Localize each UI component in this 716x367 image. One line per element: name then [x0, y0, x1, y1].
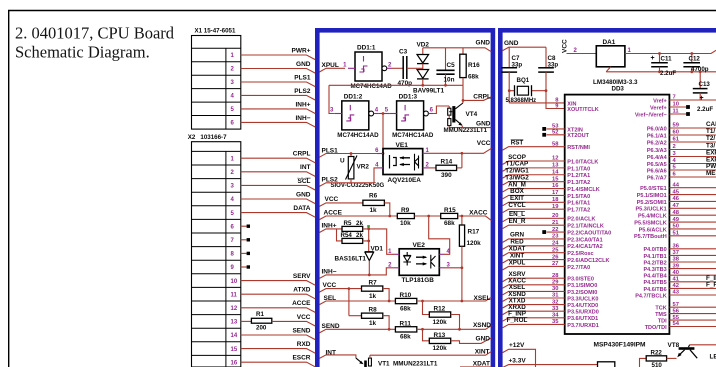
capacitor C8 33p: [538, 47, 565, 108]
svg-text:P6.6/A6: P6.6/A6: [647, 168, 667, 174]
sheet 2 border: [498, 28, 716, 367]
wire feedback rail y85: [329, 84, 463, 87]
svg-text:390: 390: [441, 172, 452, 179]
svg-text:Vref−/Veref−: Vref−/Veref−: [635, 112, 667, 118]
svg-text:P1.3/TA2: P1.3/TA2: [567, 180, 590, 186]
svg-text:GND: GND: [476, 120, 491, 127]
pin 16 P1.4/SMCLK node AN_M: [503, 181, 600, 193]
svg-text:16: 16: [552, 183, 559, 189]
svg-text:30: 30: [552, 286, 558, 292]
wire XINT: [370, 349, 492, 356]
pin 61 P6.2/A2 node T2/: [647, 135, 716, 146]
svg-text:40: 40: [673, 270, 679, 276]
svg-text:24: 24: [552, 241, 559, 247]
wire XSND: [417, 322, 492, 331]
svg-text:VT8: VT8: [668, 342, 680, 349]
svg-text:T3/: T3/: [706, 143, 715, 150]
svg-text:11: 11: [231, 292, 238, 298]
pin 45 P5.1/SIMO1: [637, 189, 716, 199]
wire ACCE: [319, 210, 397, 220]
svg-text:P4.2/TB2: P4.2/TB2: [643, 260, 666, 266]
svg-text:P2.3/CA0/TA1: P2.3/CA0/TA1: [567, 237, 602, 243]
svg-text:42: 42: [673, 283, 679, 289]
pin 20 P2.0/ACLK node EN_L: [503, 211, 596, 223]
svg-text:58: 58: [552, 141, 559, 147]
wire VD2 mid node: [417, 67, 423, 69]
dual diode VD2 BAV99LT1: [413, 42, 444, 95]
svg-text:RST/NMI: RST/NMI: [567, 145, 590, 151]
svg-text:F_RO: F_RO: [706, 281, 716, 288]
svg-text:47: 47: [673, 203, 679, 209]
pin 12 P1.0/TACLK node SCOP: [503, 154, 599, 166]
svg-text:21: 21: [552, 220, 559, 226]
svg-text:+: +: [700, 95, 704, 102]
svg-text:P6.1/A1: P6.1/A1: [647, 133, 667, 139]
optocoupler VE2 TLP181GB: [388, 242, 450, 284]
svg-text:P5.7/TBoutH: P5.7/TBoutH: [634, 234, 667, 240]
wire INT: [319, 349, 356, 358]
resistor R16 68k: [460, 48, 480, 86]
svg-text:XACC: XACC: [469, 210, 488, 217]
svg-text:X1 15-47-6051: X1 15-47-6051: [195, 28, 236, 35]
pin 26 P2.6/ADC12CLK node XINT: [503, 252, 610, 264]
svg-text:GND: GND: [476, 39, 491, 46]
svg-text:35: 35: [552, 319, 559, 325]
svg-text:MC74HC14AD: MC74HC14AD: [337, 132, 379, 139]
svg-text:29: 29: [552, 280, 559, 286]
wire X1 pin 2 GND: [241, 61, 315, 73]
svg-text:PLS2: PLS2: [294, 88, 311, 95]
svg-text:13: 13: [231, 320, 238, 326]
svg-text:18: 18: [552, 197, 559, 203]
pin 35 P3.7/URXD1 node F_ROL: [503, 317, 599, 329]
svg-text:P6.3/A3: P6.3/A3: [647, 148, 667, 154]
svg-text:51: 51: [673, 230, 680, 236]
wire X2 pin 2 INT: [241, 164, 315, 176]
optocoupler VE1 AQV210EA: [375, 142, 429, 184]
resistor R23 on +3.3V: [598, 362, 615, 367]
svg-text:TLP181GB: TLP181GB: [402, 277, 435, 284]
pin 29 P3.1/SIMO0 node XACC: [503, 278, 598, 290]
svg-text:X2 103166-7: X2 103166-7: [188, 134, 227, 141]
svg-text:R54: R54: [341, 232, 353, 239]
pin 44 P5.0/STE1: [640, 182, 716, 192]
svg-text:P4.4/TB4: P4.4/TB4: [643, 274, 667, 280]
pin 49 P5.5/SMCLK: [634, 217, 716, 227]
crystal BQ1 5.8368MHz: [506, 77, 548, 104]
svg-text:XPUL: XPUL: [322, 62, 339, 69]
svg-text:SCL: SCL: [298, 178, 311, 185]
svg-text:SERV: SERV: [293, 273, 311, 280]
svg-text:44: 44: [673, 182, 680, 188]
wire +3.3V: [503, 357, 598, 367]
pin 58 RST/NMI node RST: [503, 140, 591, 152]
wire X2 pin 15 RXD: [241, 341, 315, 353]
node XPUL: [319, 62, 345, 72]
pin 13 P1.1/TA0 node T1/CAP: [503, 161, 591, 173]
wire SEL: [319, 295, 395, 305]
svg-text:P2.2/CAOUT/TA0: P2.2/CAOUT/TA0: [567, 230, 611, 236]
svg-text:VR2: VR2: [357, 164, 370, 171]
junction node DD net: [382, 112, 385, 153]
svg-text:14: 14: [552, 169, 559, 175]
svg-text:Schematic Diagram.: Schematic Diagram.: [15, 43, 150, 62]
pin 59 P6.0/A0 node CAP: [647, 121, 716, 132]
svg-text:11: 11: [673, 109, 680, 115]
svg-text:39: 39: [673, 263, 680, 269]
svg-text:68k: 68k: [400, 334, 411, 341]
svg-text:R17: R17: [468, 229, 480, 236]
wire XSEL: [417, 295, 492, 302]
wire DA1 output rail: [625, 50, 716, 54]
svg-text:10k: 10k: [400, 220, 411, 227]
svg-text:PWR+: PWR+: [292, 47, 311, 54]
connector X2 103166-7: [188, 134, 241, 367]
svg-text:P3.7/URXD1: P3.7/URXD1: [567, 323, 599, 329]
resistor R6 1k: [363, 193, 390, 216]
svg-text:VCC: VCC: [477, 140, 491, 147]
svg-text:36: 36: [673, 244, 680, 250]
svg-text:XINT: XINT: [475, 349, 490, 356]
wire X2 pin 10 SERV: [241, 273, 315, 285]
svg-text:P3.2/SOMI0: P3.2/SOMI0: [567, 290, 597, 296]
resistor R13 120k: [423, 329, 492, 352]
svg-text:P4.7/TBCLK: P4.7/TBCLK: [635, 293, 667, 299]
node XDAT: [460, 361, 491, 367]
svg-text:VCC: VCC: [323, 282, 337, 289]
svg-text:P3.3/UCLK0: P3.3/UCLK0: [567, 296, 598, 302]
svg-text:120k: 120k: [433, 345, 448, 352]
svg-text:T2/: T2/: [706, 135, 715, 142]
svg-text:DD1:2: DD1:2: [344, 93, 363, 100]
svg-text:16: 16: [231, 360, 238, 366]
svg-text:41: 41: [673, 277, 680, 283]
wire R9R15 junction to VE2 pin4: [429, 216, 450, 254]
svg-text:R14: R14: [441, 158, 453, 165]
svg-text:46: 46: [673, 196, 680, 202]
svg-text:P3.5/URXD0: P3.5/URXD0: [567, 310, 599, 316]
pin 57 TCK: [655, 302, 716, 312]
pin 51 P5.7/TBoutH: [634, 230, 716, 240]
svg-text:C5: C5: [447, 62, 456, 69]
svg-text:38: 38: [673, 257, 680, 263]
pin 33 P3.5/URXD0 node XRXD: [503, 304, 599, 316]
capacitor C12 4700p: [683, 54, 708, 73]
wire SEND: [319, 323, 395, 333]
svg-text:22: 22: [552, 227, 558, 233]
svg-text:45: 45: [673, 189, 680, 195]
pin 38 P4.2/TB2: [643, 257, 716, 267]
pin 23 P2.3/CA0/TA1 node GRN: [503, 232, 603, 244]
wire X2 pin 12 ACCE: [241, 300, 315, 312]
svg-text:R5: R5: [344, 220, 352, 227]
svg-text:68k: 68k: [400, 305, 411, 312]
svg-text:P1.1/TA0: P1.1/TA0: [567, 166, 590, 172]
svg-text:C11: C11: [661, 56, 673, 63]
svg-text:P5.6/ACLK: P5.6/ACLK: [639, 227, 667, 233]
svg-text:ATXD: ATXD: [293, 287, 311, 294]
svg-text:P5.0/STE1: P5.0/STE1: [640, 186, 667, 192]
pin 6 P6.7/A7 node MES: [647, 170, 716, 181]
resistor R5 2k: [342, 220, 363, 232]
svg-text:23: 23: [552, 234, 559, 240]
pin 32 P3.4/UTXD0 node XTXD: [503, 297, 599, 309]
svg-text:27: 27: [552, 261, 558, 267]
pin 3 P6.4/A4 node EXP: [647, 150, 716, 161]
pin 4 P6.5/A5 node EXP: [647, 157, 716, 168]
svg-text:P1.5/TA0: P1.5/TA0: [567, 194, 590, 200]
svg-text:RXD: RXD: [297, 341, 311, 348]
svg-text:1k: 1k: [369, 320, 377, 327]
svg-text:U: U: [340, 158, 345, 165]
svg-text:PLS1: PLS1: [294, 74, 311, 81]
pin 56 TMS: [655, 308, 716, 318]
wire X1 pin 1 PWR+: [241, 47, 315, 59]
svg-text:2k: 2k: [356, 220, 363, 227]
svg-text:VT4: VT4: [466, 111, 478, 118]
wire X1 pin 3 PLS1: [241, 74, 315, 86]
pin 14 P1.2/TA1 node T2/WG1: [503, 168, 591, 180]
pin 55 TDI: [658, 315, 716, 325]
pin 31 P3.3/UCLK0 node XSND: [503, 291, 599, 303]
resistor R54 2k: [337, 229, 364, 244]
pin 15 P1.3/TA2 node T3/WG2: [503, 174, 591, 186]
svg-text:P6.5/A5: P6.5/A5: [647, 162, 667, 168]
svg-text:ACCE: ACCE: [324, 210, 343, 217]
svg-text:ACCE: ACCE: [292, 300, 311, 307]
pin 22 P2.2/CAOUT/TA0: [542, 227, 611, 237]
node VCC DA1: [562, 39, 569, 53]
pin 43 P4.7/TBCLK: [635, 290, 716, 300]
svg-text:510: 510: [652, 362, 663, 367]
svg-text:P2.5/Rosc: P2.5/Rosc: [567, 251, 593, 257]
pin 54 TDO/TDI: [645, 321, 716, 331]
wire X2 pin 3 SCL: [241, 178, 315, 190]
wire X1 pin 4 PLS2: [241, 88, 315, 100]
svg-text:SEND: SEND: [292, 327, 310, 334]
svg-text:CAP: CAP: [706, 121, 716, 128]
svg-text:XSEL: XSEL: [474, 295, 491, 302]
pin 11 Vref-/Veref-: [635, 109, 690, 119]
svg-text:MSP430F149IPM: MSP430F149IPM: [594, 341, 647, 348]
svg-text:P2.6/ADC12CLK: P2.6/ADC12CLK: [567, 258, 609, 264]
svg-text:P5.3/UCLK1: P5.3/UCLK1: [636, 207, 667, 213]
svg-text:P4.6/TB6: P4.6/TB6: [643, 287, 666, 293]
inverter DD1:3 MC74HC14AD: [385, 93, 434, 138]
svg-text:Veref+: Veref+: [650, 105, 667, 111]
wire +12V: [503, 342, 536, 367]
svg-text:EN_R: EN_R: [509, 218, 526, 225]
svg-text:P4.0/TB0: P4.0/TB0: [643, 247, 666, 253]
svg-text:55: 55: [673, 315, 680, 321]
svg-text:P2.7/TA0: P2.7/TA0: [567, 265, 590, 271]
svg-text:CYCL: CYCL: [508, 202, 525, 209]
wire PLS2: [319, 168, 377, 187]
svg-text:P5.4/MCLK: P5.4/MCLK: [638, 214, 667, 220]
svg-text:R6: R6: [369, 193, 378, 200]
wire VCC R7 row: [319, 282, 361, 316]
pin 34 P3.6/UTXD1 node F_INP: [503, 311, 599, 323]
wire X1 pin 5 INH+: [241, 101, 315, 113]
svg-text:VCC: VCC: [297, 314, 311, 321]
svg-text:P6.7/A7: P6.7/A7: [647, 175, 667, 181]
svg-text:RST: RST: [511, 140, 524, 147]
svg-text:37: 37: [673, 250, 679, 256]
resistor R8 1k: [349, 307, 389, 330]
pin 25 P2.5/Rosc node XDAT: [503, 246, 594, 258]
svg-text:DA1: DA1: [603, 39, 616, 46]
svg-text:31: 31: [552, 293, 559, 299]
svg-text:DD3: DD3: [612, 86, 625, 93]
svg-text:52: 52: [552, 130, 558, 136]
svg-text:43: 43: [673, 290, 680, 296]
svg-text:P3.0/STE0: P3.0/STE0: [567, 277, 594, 283]
svg-text:XSND: XSND: [473, 322, 491, 329]
wire X2 pin 16 ESCR: [241, 355, 315, 367]
svg-text:33p: 33p: [512, 62, 523, 69]
svg-text:R12: R12: [434, 305, 446, 312]
sheet 1 border: [315, 28, 495, 367]
pin 2 P6.3/A3 node T3/: [647, 143, 716, 154]
svg-text:AQV210EA: AQV210EA: [388, 177, 422, 184]
pin 42 P4.6/TB6: [643, 281, 716, 292]
svg-text:C13: C13: [699, 81, 711, 88]
svg-text:13: 13: [552, 163, 559, 169]
svg-text:INH−: INH−: [322, 269, 337, 276]
svg-text:2.2uF: 2.2uF: [660, 70, 676, 77]
wire VCC R6 row: [319, 196, 363, 206]
wire XIN: [509, 102, 565, 104]
capacitor C13 2.2uF: [693, 72, 714, 113]
svg-text:49: 49: [673, 217, 680, 223]
svg-text:INH+: INH+: [296, 101, 311, 108]
capacitor C3 470p: [392, 49, 417, 87]
svg-text:P3.6/UTXD1: P3.6/UTXD1: [567, 316, 598, 322]
resistor R14 390: [428, 158, 462, 178]
svg-text:DD1:3: DD1:3: [399, 93, 418, 100]
title text: [15, 24, 175, 62]
svg-text:10: 10: [231, 279, 238, 285]
svg-text:INT: INT: [326, 349, 337, 356]
wire X2 pin 4 GND: [241, 191, 315, 203]
resistor R9 10k: [397, 207, 414, 227]
junction R5 R54 green: [363, 225, 370, 252]
wire GND top rail sheet1: [423, 48, 492, 52]
svg-text:+12V: +12V: [509, 342, 525, 349]
svg-text:SEND: SEND: [322, 323, 340, 330]
svg-text:60: 60: [673, 130, 679, 136]
svg-text:34: 34: [552, 313, 559, 319]
wire INH+: [319, 223, 342, 233]
no-connect X2 pin 7: [241, 238, 250, 241]
regulator DA1 LM3480IM3-3.3: [567, 39, 638, 92]
svg-text:P4.1/TB1: P4.1/TB1: [643, 254, 666, 260]
pin 39 P4.3/TB3: [643, 263, 716, 273]
svg-text:68k: 68k: [468, 74, 479, 81]
wire CRPL sheet1: [462, 85, 492, 102]
svg-text:TMS: TMS: [655, 312, 667, 318]
resistor R7 1k: [362, 279, 390, 301]
transistor VT4 MMUN2231LT1: [444, 100, 488, 133]
svg-text:TDI: TDI: [658, 319, 667, 325]
wire GND VT4 emitter: [463, 127, 492, 129]
no-connect X2 pin 9: [241, 265, 250, 268]
svg-text:R15: R15: [444, 207, 456, 214]
svg-text:P4.3/TB3: P4.3/TB3: [643, 267, 666, 273]
svg-text:P5.2/SOMI1: P5.2/SOMI1: [637, 200, 667, 206]
svg-text:INT: INT: [300, 164, 311, 171]
svg-text:15: 15: [552, 176, 559, 182]
svg-text:C3: C3: [399, 49, 408, 56]
svg-text:R22: R22: [651, 350, 663, 357]
svg-text:12: 12: [552, 156, 558, 162]
svg-text:10: 10: [673, 102, 679, 108]
svg-text:BQ1: BQ1: [517, 77, 530, 84]
svg-text:P2.0/ACLK: P2.0/ACLK: [567, 217, 595, 223]
svg-text:P6.2/A2: P6.2/A2: [647, 140, 667, 146]
pin 18 P1.6/TA1 node EXIT: [503, 195, 591, 207]
pin 53 XT2IN: [542, 124, 583, 134]
wire GND crystal rail: [503, 40, 546, 51]
svg-text:SIOV-CU3225K50G: SIOV-CU3225K50G: [331, 183, 385, 189]
svg-text:MES: MES: [706, 170, 716, 177]
resistor R12 120k: [423, 301, 460, 329]
svg-text:VE2: VE2: [413, 242, 426, 249]
pin 28 P3.0/STE0 node XSRV: [503, 271, 594, 283]
svg-text:26: 26: [552, 254, 559, 260]
svg-text:+3.3V: +3.3V: [509, 357, 527, 364]
svg-text:20: 20: [552, 213, 558, 219]
svg-text:12: 12: [231, 306, 238, 312]
svg-text:P6.4/A4: P6.4/A4: [647, 155, 668, 161]
svg-text:P4.5/TB5: P4.5/TB5: [643, 280, 666, 286]
svg-text:Vref+: Vref+: [653, 98, 667, 104]
svg-text:VCC: VCC: [562, 39, 569, 53]
svg-text:INH−: INH−: [296, 115, 311, 122]
svg-text:BAV99LT1: BAV99LT1: [413, 87, 444, 94]
svg-text:2. 0401017, CPU Board: 2. 0401017, CPU Board: [15, 24, 175, 43]
resistor R1 200: [241, 311, 315, 332]
svg-text:R11: R11: [400, 320, 412, 327]
svg-text:4700p: 4700p: [691, 66, 709, 73]
resistor R22 510: [640, 350, 677, 367]
wire DD1:2 out to DD1:3 in: [379, 113, 390, 115]
pin 21 P2.1/TAINCLK node EN_R: [503, 218, 604, 230]
svg-text:68k: 68k: [444, 220, 455, 227]
svg-text:XT2OUT: XT2OUT: [567, 133, 589, 139]
pin 10 Veref+: [650, 102, 690, 112]
svg-text:GND: GND: [504, 40, 519, 47]
svg-text:1k: 1k: [369, 293, 377, 300]
svg-text:PW: PW: [706, 163, 716, 170]
svg-text:P1.6/TA1: P1.6/TA1: [567, 201, 590, 207]
svg-text:CRPL: CRPL: [473, 94, 491, 101]
pin 7 Vref+: [653, 95, 716, 105]
svg-text:XDAT: XDAT: [473, 361, 490, 367]
svg-text:61: 61: [673, 137, 680, 143]
svg-text:PLS1: PLS1: [322, 147, 339, 154]
pin 52 XT2OUT: [542, 130, 589, 140]
pin 60 P6.1/A1 node T1/: [647, 128, 716, 139]
wire PLS1: [319, 147, 384, 157]
svg-text:28: 28: [552, 273, 559, 279]
svg-text:2: 2: [673, 144, 676, 150]
microcontroller DD2 MSP430F149IPM: [565, 95, 670, 349]
wire X2 pin 14 SEND: [241, 327, 315, 339]
wire VE2 pin3: [444, 266, 463, 301]
svg-text:10n: 10n: [444, 77, 455, 84]
svg-text:7: 7: [673, 95, 676, 101]
